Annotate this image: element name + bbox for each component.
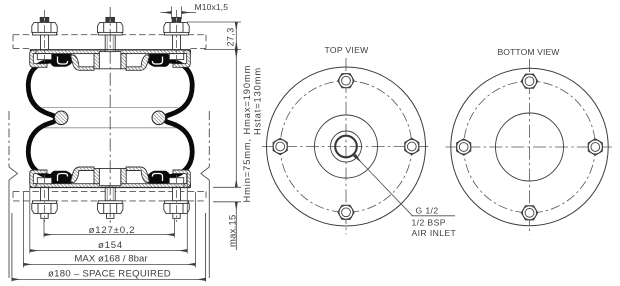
bottom bolt left: shaft — [41, 187, 49, 201]
top bolt left: hex nut — [32, 22, 57, 32]
dim Hstat line — [235, 50, 237, 187]
dim phi180 line — [12, 278, 205, 280]
svg-text:ø154: ø154 — [98, 240, 123, 251]
top view bolt N — [338, 74, 354, 88]
centerline left bottom bolt — [44, 175, 46, 222]
bottom bolt right: inner flange — [169, 178, 183, 184]
bottom view outer circle — [451, 68, 608, 225]
top bolt left: stud tip — [40, 17, 49, 22]
top bolt left: shaft — [41, 35, 49, 50]
top bolt right: stud tip — [172, 17, 181, 22]
bottom plate: boss left wall — [94, 169, 99, 184]
bottom plate: boss nut block — [99, 169, 120, 186]
dim max.15 arrows outside — [235, 202, 237, 210]
bellows left wall — [28, 61, 56, 177]
bottom bolt right: hex nut — [164, 203, 189, 213]
dim phi154 extension lines — [29, 172, 31, 254]
main vertical centerline — [109, 7, 111, 226]
girdle ring left — [54, 111, 68, 125]
centerline right bottom bolt — [176, 175, 178, 222]
top bolt middle: washer — [98, 32, 122, 35]
bottom bolt left: washer — [33, 201, 57, 204]
top bolt right: inner flange — [169, 54, 183, 60]
top plate: boss right wall — [121, 54, 126, 69]
centerline right top bolt — [176, 10, 178, 62]
top view centerlines — [262, 146, 430, 148]
bellows bottom bead right (rubber) — [147, 171, 170, 183]
bottom view bolt S — [521, 206, 537, 220]
top view inner plate circle — [315, 115, 378, 178]
dim max.15 extension lines — [213, 186, 241, 188]
bottom view bolt N — [521, 74, 537, 88]
dim max phi168 extension lines — [22, 192, 24, 268]
top bolt left: inner flange — [37, 54, 51, 60]
bottom plate: flat band — [31, 184, 191, 188]
top plate: right rolled edge — [173, 50, 190, 67]
svg-text:AIR INLET: AIR INLET — [412, 228, 457, 238]
top bolt middle: stud tip — [106, 17, 115, 22]
dim M10x1,5 arrows — [161, 12, 172, 14]
bellows bottom bead left (rubber) — [50, 171, 73, 183]
bottom bolt left: inner flange — [37, 178, 51, 184]
bottom view bolt circle (dash-dot) — [464, 81, 596, 213]
top plate: flat band — [31, 50, 191, 54]
dim 27,3 extension lines — [187, 21, 241, 23]
top plate: right pan band — [126, 55, 150, 71]
svg-text:Hmin=75mm, Hmax=190mm: Hmin=75mm, Hmax=190mm — [242, 65, 252, 203]
bottom plate: boss right wall — [121, 169, 126, 184]
bottom bolt right: shaft — [173, 187, 181, 201]
top bolt right: washer — [165, 32, 189, 35]
top bolt right: hex nut — [164, 22, 189, 32]
bottom plate: right pan band — [126, 167, 150, 183]
top bolt middle: hex nut — [98, 22, 123, 32]
bottom bolt middle: washer — [98, 201, 122, 204]
space-required envelope line left (dash-dot + break + solid) — [9, 111, 18, 282]
bellows top bead left (rubber) — [50, 55, 73, 67]
bellows waist throat lines — [42, 107, 178, 109]
top bolt middle: shaft with thread — [105, 35, 115, 52]
dim max phi168 line — [24, 263, 195, 265]
svg-text:G 1/2: G 1/2 — [416, 206, 439, 216]
bottom bolt left: hex nut — [32, 203, 57, 213]
dim phi127 line — [45, 234, 175, 236]
girdle ring right — [152, 111, 166, 125]
dim 27,3 line — [235, 22, 237, 49]
dim M10x1,5 extension lines — [171, 7, 173, 20]
top plate: boss left wall — [94, 54, 99, 69]
bottom plate: left pan band — [71, 167, 95, 183]
top plate: left pan band — [71, 55, 95, 71]
top view bolt W — [405, 138, 419, 154]
bottom view centerlines — [446, 146, 614, 148]
svg-text:MAX ø168 / 8bar: MAX ø168 / 8bar — [74, 254, 148, 265]
dim phi127 extension lines — [43, 219, 45, 238]
leader air inlet — [355, 155, 413, 215]
svg-text:ø180 – SPACE REQUIRED: ø180 – SPACE REQUIRED — [48, 269, 171, 280]
centerline left top bolt — [44, 10, 46, 62]
plate surface emphasis lines — [30, 50, 191, 188]
bellows right wall — [165, 61, 193, 177]
top view air inlet boss circle — [331, 131, 362, 162]
bottom view bolt W — [588, 139, 602, 155]
svg-text:TOP VIEW: TOP VIEW — [324, 45, 369, 55]
bottom bolt right: washer — [165, 201, 189, 204]
top bolt left: washer — [33, 32, 57, 35]
top view outer circle — [267, 67, 426, 226]
svg-text:1/2 BSP: 1/2 BSP — [412, 218, 446, 228]
svg-text:Hstat=130mm: Hstat=130mm — [253, 67, 263, 135]
top bolt right: shaft — [173, 35, 181, 50]
top view bolt E — [273, 138, 287, 154]
svg-text:BOTTOM VIEW: BOTTOM VIEW — [497, 47, 560, 57]
top plate: boss nut block — [99, 52, 120, 69]
svg-text:M10x1,5: M10x1,5 — [195, 2, 229, 12]
top view bolt circle (dash-dot) — [280, 81, 412, 213]
bottom view inner circle — [496, 113, 564, 181]
top view air inlet hole — [335, 136, 357, 158]
svg-text:max.15: max.15 — [227, 214, 238, 247]
bottom bolt middle: stud tip — [107, 213, 114, 218]
bottom plate: left rolled edge — [30, 170, 47, 187]
bottom bolt right: stud tip — [173, 213, 180, 218]
svg-text:27,3: 27,3 — [226, 27, 236, 46]
top plate: left rolled edge — [30, 50, 47, 67]
phantom mounting plate (top, dashed) — [13, 35, 206, 49]
dim phi154 line — [30, 250, 187, 252]
bottom view bolt E — [457, 139, 471, 155]
bottom plate: right rolled edge — [173, 170, 190, 187]
bottom bolt left: stud tip — [41, 213, 48, 218]
top view bolt S — [338, 205, 354, 219]
bottom bolt middle: shaft — [105, 187, 115, 201]
space-required envelope line right (dash-dot + break + solid) — [201, 111, 210, 282]
bellows top bead right (rubber) — [147, 55, 170, 67]
bottom bolt middle: hex nut — [98, 203, 123, 213]
svg-text:ø127±0,2: ø127±0,2 — [89, 225, 136, 236]
phantom mounting plate (bottom, dashed) — [13, 191, 206, 201]
